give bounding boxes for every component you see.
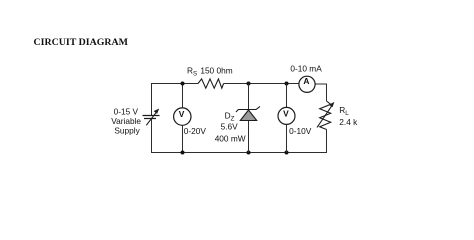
voltmeter V2 circle [278,107,295,124]
voltmeter V1 circle [174,108,191,125]
node junction bottom V1 [181,151,185,155]
svg-text:DZ: DZ [225,110,235,122]
svg-text:0-10V: 0-10V [289,126,312,136]
zener diode DZ cathode bar [236,106,260,112]
wire zener branch [248,84,250,153]
svg-text:V: V [179,109,185,119]
svg-text:RL: RL [339,105,349,117]
svg-text:Variable: Variable [111,116,141,126]
wire top rail left segment [151,83,198,85]
wire voltmeter V1 branch [182,84,184,153]
svg-text:5.6V: 5.6V [221,122,239,132]
wire left rail [151,83,153,153]
node junction top zener [247,82,251,86]
svg-text:2.4 k: 2.4 k [339,117,358,127]
svg-text:V: V [283,108,289,118]
wire right rail lower segment [326,130,328,154]
node junction bottom zener [247,151,251,155]
node junction bottom V2 [285,151,289,155]
resistor RS zigzag [198,79,224,88]
wire bottom rail [151,152,327,154]
zener diode DZ triangle [240,110,256,121]
wire voltmeter V2 branch [286,84,288,153]
variable supply arrow [146,112,156,125]
wire top rail mid segment [224,83,299,85]
svg-text:0-15 V: 0-15 V [114,106,139,116]
svg-text:0-10 mA: 0-10 mA [290,64,322,74]
ammeter A circle [299,76,315,92]
node junction top V1 [181,82,185,86]
svg-text:400 mW: 400 mW [215,133,246,143]
svg-text:Supply: Supply [114,125,140,135]
resistor RL arrow [317,106,332,128]
svg-text:RS150 0hm: RS150 0hm [187,66,233,78]
svg-text:0-20V: 0-20V [184,126,207,136]
resistor RL zigzag [320,101,331,130]
svg-text:CIRCUIT DIAGRAM: CIRCUIT DIAGRAM [34,37,129,48]
svg-text:A: A [303,76,309,86]
wire top rail right segment after ammeter [315,84,327,101]
node junction top V2 [285,82,289,86]
variable supply bars [143,116,160,119]
